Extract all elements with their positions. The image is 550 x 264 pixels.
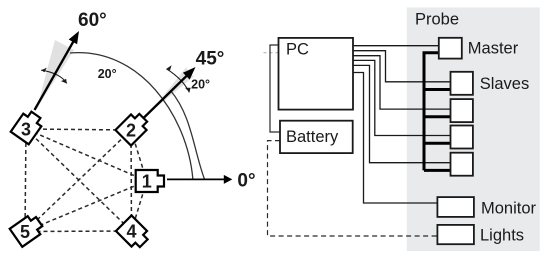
wire 1-4 (132, 181, 147, 231)
svg-text:Probe: Probe (415, 11, 459, 29)
svg-text:20°: 20° (191, 78, 210, 92)
arc 0-45 (outer) (171, 91, 205, 180)
slave box 2 (451, 99, 473, 122)
wire battery-lights dashed (268, 141, 438, 236)
tag 2 (115, 110, 151, 146)
svg-text:Slaves: Slaves (480, 75, 530, 93)
svg-text:1: 1 (142, 171, 152, 191)
svg-text:60°: 60° (78, 10, 107, 31)
lights box (437, 225, 474, 244)
PC box (279, 38, 354, 110)
slave box 3 (451, 126, 473, 149)
slave box 1 (451, 72, 473, 95)
wire PC-master (353, 45, 439, 47)
wire 1-5 (25, 181, 147, 232)
tag 1 (136, 170, 164, 192)
faint dashed stub (264, 52, 279, 54)
20deg dim arc near 60 (41, 70, 67, 83)
svg-text:Master: Master (468, 40, 519, 58)
tag 3 (11, 109, 45, 145)
wire 3-4 (26, 129, 132, 231)
wire PC-slave2 (353, 56, 451, 109)
svg-text:5: 5 (20, 222, 30, 242)
arrow 45deg (143, 67, 196, 119)
slave box 4 (451, 153, 473, 176)
svg-text:2: 2 (126, 120, 136, 140)
wire 2-4 (130, 130, 133, 231)
dashed links K5 (25, 129, 147, 232)
wire 1-3 (26, 129, 147, 181)
svg-text:Monitor: Monitor (481, 200, 537, 218)
battery box (280, 121, 353, 153)
wire 4-5 (25, 230, 132, 233)
tag 4 (116, 215, 152, 251)
arc 0-60 (inner) (70, 53, 193, 180)
wedge at 45deg arrow (150, 68, 194, 113)
wire PC-slave3 (353, 60, 451, 135)
wire 1-2 (131, 130, 147, 181)
wire PC-slave1 (353, 51, 451, 82)
svg-text:PC: PC (286, 41, 309, 59)
svg-text:3: 3 (21, 119, 31, 139)
svg-text:Lights: Lights (480, 227, 524, 245)
svg-text:0°: 0° (237, 171, 255, 192)
svg-text:20°: 20° (98, 67, 117, 81)
svg-text:45°: 45° (196, 49, 225, 70)
master box (439, 38, 462, 59)
monitor box (437, 197, 474, 217)
tag 5 (10, 213, 46, 247)
arrow 0deg (167, 175, 232, 184)
20deg dim arc near 45 (166, 69, 189, 93)
wire 2-5 (25, 130, 131, 232)
svg-text:Battery: Battery (286, 128, 339, 146)
wedge at 60deg arrow (37, 40, 74, 108)
arrow 60deg (35, 31, 80, 110)
wire 3-5 (25, 129, 26, 232)
wire PC-battery bracket (270, 45, 280, 132)
bus master-slaves thick (424, 53, 451, 171)
wire PC-slave4 (353, 65, 451, 162)
wire 2-3 (26, 129, 131, 130)
probe gray panel (407, 8, 540, 252)
wire PC-monitor (353, 73, 437, 204)
svg-text:4: 4 (126, 221, 136, 241)
